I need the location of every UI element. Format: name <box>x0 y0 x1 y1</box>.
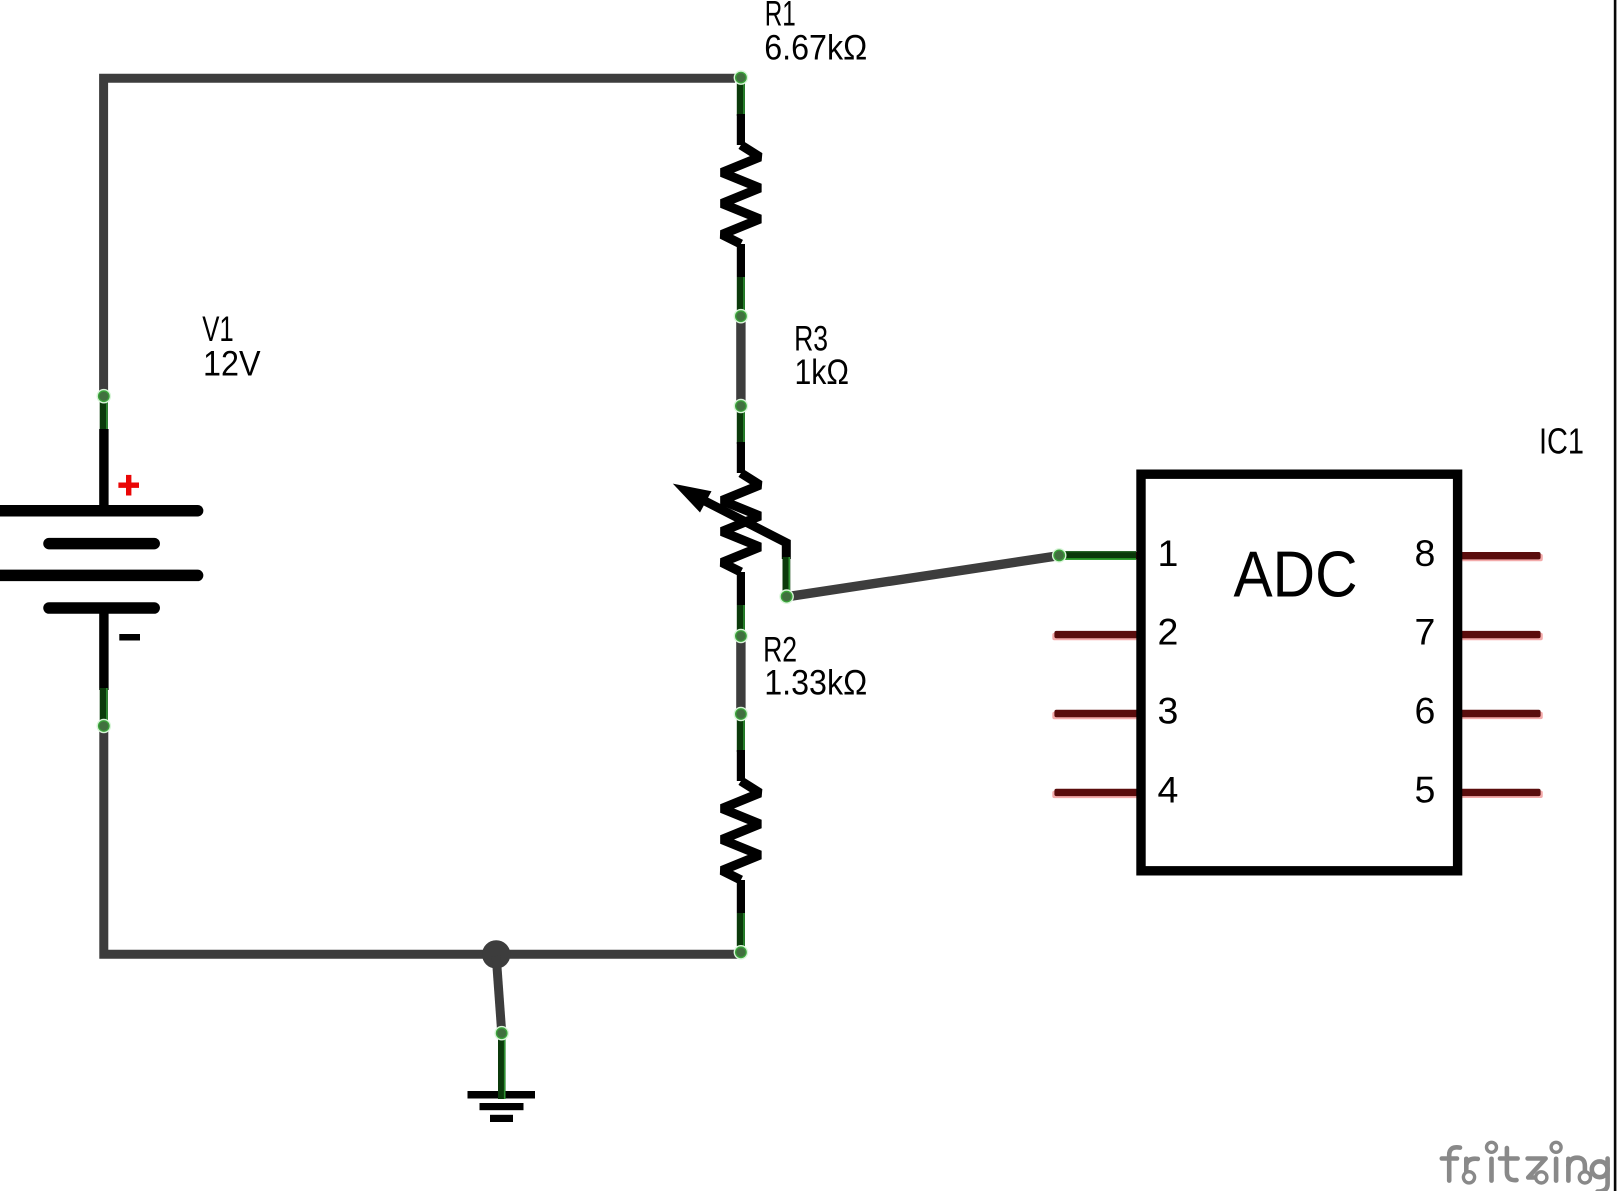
svg-text:2: 2 <box>1158 611 1179 653</box>
svg-text:8: 8 <box>1415 532 1436 574</box>
svg-text:4: 4 <box>1158 769 1179 811</box>
IC IC1 ADC <box>1052 474 1542 871</box>
pin 4 lead <box>1052 789 1141 798</box>
plate 3 long <box>0 570 198 582</box>
plus sign <box>118 475 139 496</box>
pin number 3 <box>1158 690 1179 732</box>
node: R3 wiper pin <box>779 589 794 604</box>
resistor R2 <box>722 719 760 946</box>
wire: R3 bottom to R2 top <box>736 638 745 712</box>
right edge line <box>1614 0 1617 1191</box>
+ lead <box>100 399 108 431</box>
svg-text:5: 5 <box>1415 769 1436 811</box>
svg-text:12V: 12V <box>203 344 261 383</box>
pin number 1 <box>1158 532 1179 574</box>
node: R2 top pin <box>734 707 749 722</box>
pin number 2 <box>1158 611 1179 653</box>
svg-text:1.33kΩ: 1.33kΩ <box>764 664 867 703</box>
wire: R1 bottom to R3 top <box>736 318 745 404</box>
svg-text:1kΩ: 1kΩ <box>795 353 850 392</box>
svg-text:ADC: ADC <box>1234 538 1358 611</box>
node: junction dot on bottom rail <box>482 940 510 968</box>
wire: R3 wiper to IC pin 1 (gray segment) <box>787 556 1060 597</box>
pin 2 lead <box>1052 631 1141 640</box>
svg-text:6.67kΩ: 6.67kΩ <box>764 29 867 68</box>
- lead <box>99 608 108 690</box>
pin 7 lead <box>1457 631 1543 640</box>
wiper shaft <box>700 499 786 560</box>
plate 4 short <box>49 602 154 614</box>
ground <box>468 1029 536 1122</box>
pin number 8 <box>1415 532 1436 574</box>
node: R3 top pin <box>734 399 749 414</box>
plate 1 long <box>0 505 198 517</box>
pin 8 lead <box>1457 552 1543 561</box>
node: wire to pin1 junction <box>1052 548 1067 563</box>
svg-text:IC1: IC1 <box>1539 421 1584 462</box>
wire: junction to ground <box>496 956 501 1031</box>
svg-text:3: 3 <box>1158 690 1179 732</box>
pin 6 lead <box>1457 710 1543 719</box>
wire: green wire into IC pin 1 <box>1059 551 1136 560</box>
svg-text:1: 1 <box>1158 532 1179 574</box>
pin number 7 <box>1415 611 1436 653</box>
node: battery - pin <box>97 719 112 734</box>
pin number 5 <box>1415 769 1436 811</box>
node: ground pin <box>494 1026 509 1041</box>
pin 5 lead <box>1457 789 1543 798</box>
svg-text:7: 7 <box>1415 611 1436 653</box>
minus sign <box>119 634 140 641</box>
node: R1 top pin <box>734 70 749 85</box>
wiper green leg <box>783 557 791 592</box>
arrow head <box>673 484 712 513</box>
pin number 4 <box>1158 769 1179 811</box>
pin 3 lead <box>1052 710 1141 719</box>
node: R3 bottom pin <box>734 629 749 644</box>
svg-text:6: 6 <box>1415 690 1436 732</box>
node: R2 bottom pin <box>734 945 749 960</box>
wire: top wire from battery + up and across to R1 <box>104 78 735 398</box>
IC body <box>1141 474 1458 871</box>
node: battery + pin <box>97 389 112 404</box>
plate 2 short <box>49 538 154 550</box>
fritzing watermark <box>1442 1142 1608 1191</box>
pin number 6 <box>1415 690 1436 732</box>
resistor R1 <box>722 83 760 310</box>
wire: bottom rail from R2 bottom to battery - <box>104 729 738 954</box>
battery V1 <box>0 399 198 722</box>
potentiometer R3 <box>722 411 760 638</box>
pin 1 lead <box>1054 552 1141 559</box>
node: R1 bottom pin <box>734 309 749 324</box>
